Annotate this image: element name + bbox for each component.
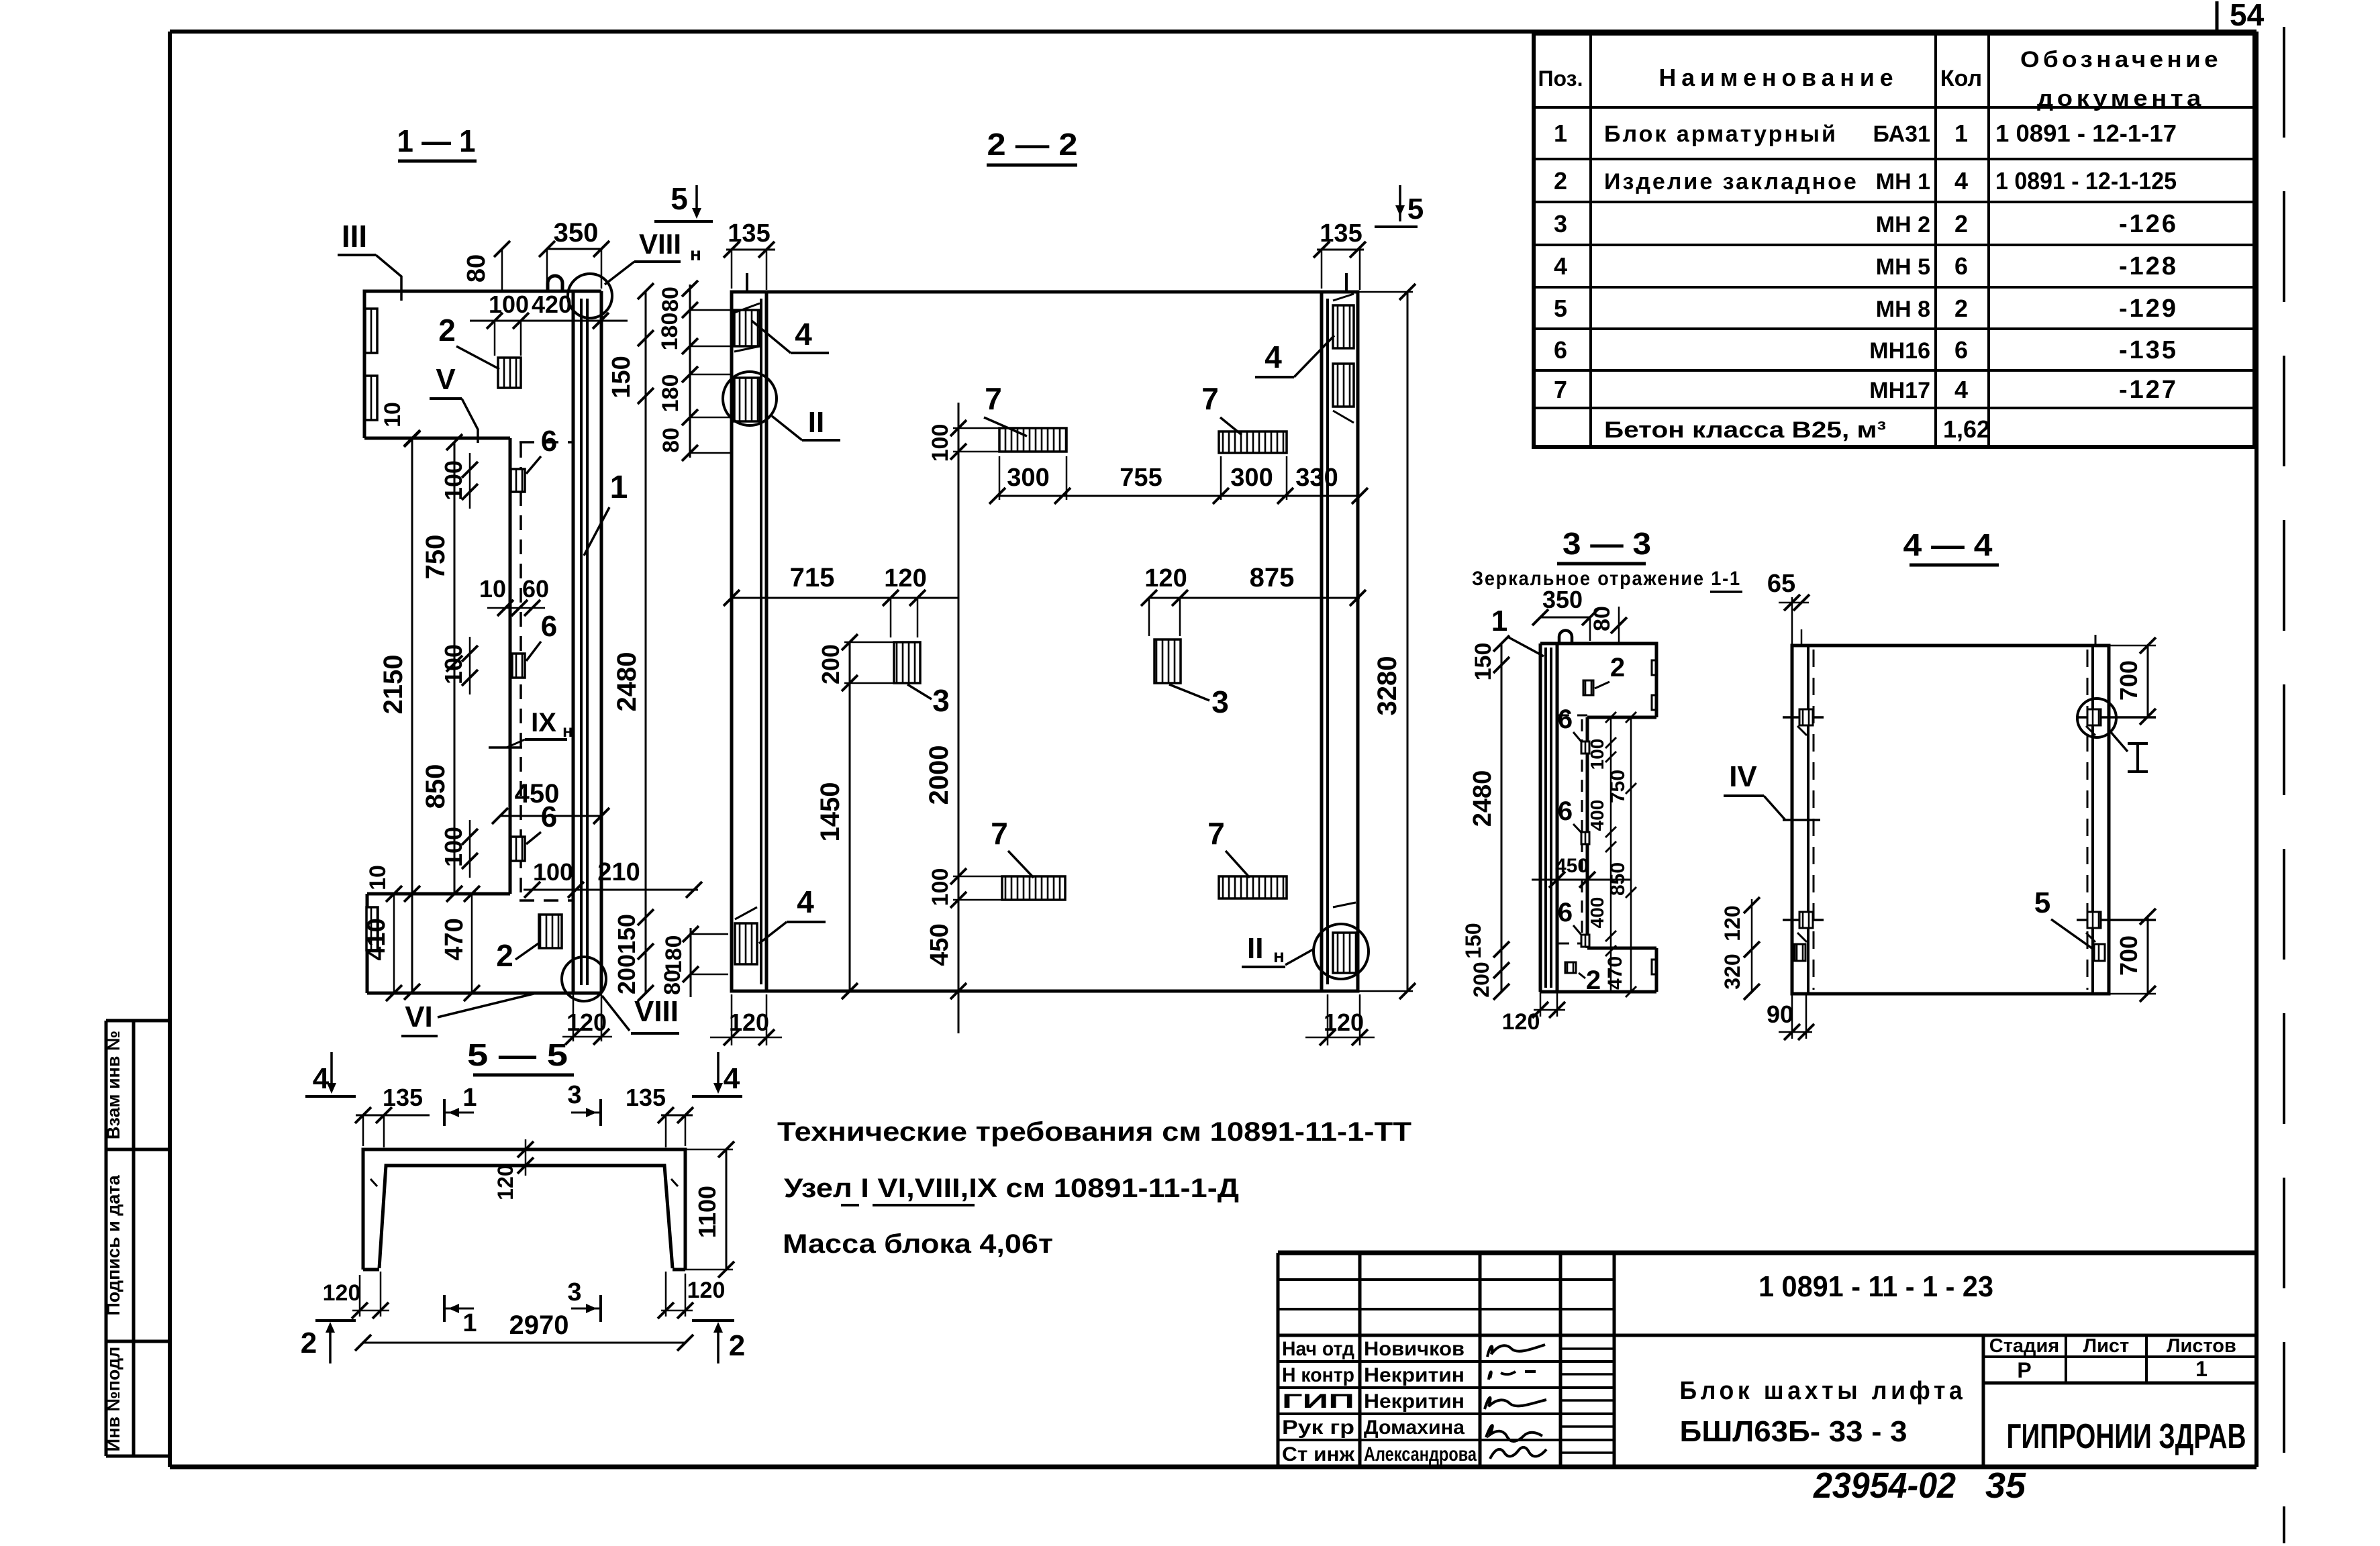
svg-text:80: 80 [658, 427, 684, 453]
svg-text:1: 1 [1554, 119, 1567, 147]
svg-text:300: 300 [1230, 464, 1273, 492]
svg-text:2150: 2150 [379, 655, 408, 715]
svg-text:54: 54 [2230, 0, 2265, 32]
svg-text:150: 150 [1461, 923, 1485, 958]
svg-text:Масса блока 4,06т: Масса блока 4,06т [783, 1229, 1053, 1259]
svg-text:750: 750 [1607, 770, 1629, 803]
svg-text:1450: 1450 [815, 782, 845, 842]
svg-text:VI: VI [405, 1000, 433, 1033]
svg-text:Изделие закладное: Изделие закладное [1604, 169, 1858, 195]
svg-text:6: 6 [541, 610, 557, 643]
svg-text:БА31: БА31 [1873, 121, 1930, 147]
svg-text:1: 1 [462, 1084, 477, 1112]
svg-text:Поз.: Поз. [1538, 66, 1583, 91]
svg-text:100: 100 [533, 858, 573, 886]
svg-text:-128: -128 [2119, 252, 2178, 280]
svg-text:23954-02: 23954-02 [1813, 1465, 1956, 1506]
svg-text:120: 120 [687, 1278, 726, 1303]
svg-text:470: 470 [1604, 956, 1626, 990]
svg-text:120: 120 [1144, 564, 1187, 592]
svg-text:Взам инв №: Взам инв № [103, 1031, 123, 1139]
svg-text:420: 420 [532, 291, 572, 318]
svg-text:7: 7 [1554, 376, 1567, 403]
svg-text:2: 2 [1610, 653, 1625, 682]
svg-text:5: 5 [2034, 886, 2050, 919]
svg-text:4: 4 [1554, 252, 1567, 280]
svg-text:1: 1 [610, 470, 628, 505]
svg-text:3: 3 [1554, 210, 1567, 238]
svg-text:400: 400 [1587, 800, 1607, 831]
svg-text:МН 1: МН 1 [1876, 169, 1930, 195]
svg-text:150: 150 [613, 914, 640, 954]
svg-text:Зеркальное отражение 1-1: Зеркальное отражение 1-1 [1472, 568, 1741, 590]
svg-text:120: 120 [1324, 1009, 1364, 1036]
svg-text:МН 8: МН 8 [1876, 297, 1930, 322]
svg-text:700: 700 [2115, 935, 2142, 976]
svg-text:4: 4 [797, 884, 814, 919]
svg-text:180: 180 [661, 935, 687, 974]
svg-text:БШЛ63Б- 33 - 3: БШЛ63Б- 33 - 3 [1680, 1415, 1907, 1448]
svg-text:Ст инж: Ст инж [1282, 1443, 1355, 1465]
svg-text:180: 180 [658, 374, 683, 413]
svg-text:1 — 1: 1 — 1 [397, 123, 476, 158]
svg-text:7: 7 [1201, 381, 1219, 416]
svg-text:1: 1 [1491, 605, 1507, 637]
svg-text:135: 135 [626, 1084, 666, 1111]
svg-text:Рук гр: Рук гр [1282, 1416, 1354, 1439]
svg-text:3280: 3280 [1373, 656, 1402, 716]
svg-text:МН 5: МН 5 [1876, 254, 1930, 280]
svg-text:1: 1 [1954, 119, 1968, 147]
svg-text:1 0891 - 12-1-17: 1 0891 - 12-1-17 [1995, 119, 2177, 147]
svg-text:90: 90 [1767, 1000, 1793, 1028]
svg-text:2: 2 [1554, 167, 1567, 195]
svg-text:2: 2 [1954, 210, 1968, 238]
svg-text:1 0891 - 11 - 1 - 23: 1 0891 - 11 - 1 - 23 [1758, 1270, 1993, 1303]
svg-text:5 — 5: 5 — 5 [467, 1037, 568, 1072]
svg-text:Узел I VI,VIII,IX см 10891-1: Узел I VI,VIII,IX см 10891-11-1-Д [784, 1174, 1239, 1203]
svg-text:6: 6 [1954, 252, 1968, 280]
svg-text:875: 875 [1250, 563, 1295, 592]
svg-text:Обозначение: Обозначение [2020, 47, 2222, 72]
svg-text:н: н [1273, 945, 1285, 966]
svg-text:2480: 2480 [1469, 770, 1497, 827]
svg-text:410: 410 [362, 918, 391, 960]
svg-text:6: 6 [1558, 796, 1573, 826]
svg-text:2: 2 [1586, 966, 1601, 995]
svg-text:7: 7 [1207, 816, 1225, 851]
svg-text:1 0891 - 12-1-125: 1 0891 - 12-1-125 [1995, 167, 2177, 195]
svg-text:120: 120 [884, 564, 926, 592]
svg-text:80: 80 [1589, 606, 1615, 631]
svg-text:-135: -135 [2119, 336, 2178, 364]
svg-text:2: 2 [496, 938, 513, 973]
svg-text:V: V [436, 363, 456, 396]
svg-text:100: 100 [928, 868, 953, 907]
svg-text:4: 4 [1954, 376, 1968, 403]
svg-text:180: 180 [657, 313, 683, 351]
svg-text:400: 400 [1587, 897, 1607, 929]
svg-text:6: 6 [1558, 705, 1573, 734]
svg-text:10: 10 [380, 402, 405, 427]
svg-text:МН17: МН17 [1869, 378, 1930, 403]
svg-text:II: II [1247, 932, 1263, 965]
svg-text:Подпись и дата: Подпись и дата [103, 1174, 123, 1315]
svg-text:150: 150 [1471, 643, 1496, 681]
svg-text:Блок шахты лифта: Блок шахты лифта [1680, 1377, 1967, 1405]
svg-text:60: 60 [522, 575, 549, 603]
svg-text:Кол: Кол [1940, 66, 1982, 91]
svg-text:1: 1 [462, 1309, 477, 1337]
svg-text:6: 6 [1954, 336, 1968, 364]
svg-text:210: 210 [597, 858, 640, 886]
svg-text:120: 120 [729, 1009, 769, 1036]
svg-text:2 — 2: 2 — 2 [987, 127, 1078, 162]
svg-text:5: 5 [1407, 193, 1424, 225]
svg-text:Р: Р [2017, 1358, 2031, 1382]
svg-text:3: 3 [567, 1278, 581, 1306]
svg-text:Новичков: Новичков [1364, 1338, 1465, 1360]
svg-text:100: 100 [1587, 739, 1607, 770]
svg-text:120: 120 [1720, 905, 1744, 941]
svg-text:120: 120 [1502, 1009, 1540, 1035]
svg-text:200: 200 [613, 954, 640, 994]
svg-text:700: 700 [2115, 660, 2142, 701]
svg-text:350: 350 [1542, 586, 1583, 613]
svg-text:10: 10 [479, 575, 506, 603]
svg-text:3: 3 [567, 1081, 581, 1109]
svg-text:VIII: VIII [639, 228, 681, 260]
svg-text:1,62: 1,62 [1943, 415, 1990, 443]
svg-text:IX: IX [531, 708, 556, 737]
svg-text:4: 4 [1954, 167, 1968, 195]
svg-text:2000: 2000 [924, 745, 954, 805]
svg-text:10: 10 [365, 865, 391, 890]
svg-text:-129: -129 [2119, 295, 2178, 323]
svg-text:450: 450 [926, 923, 954, 966]
svg-text:документа: документа [2037, 86, 2205, 111]
svg-text:2: 2 [438, 313, 456, 348]
svg-text:МН16: МН16 [1869, 338, 1930, 364]
svg-text:Блок арматурный: Блок арматурный [1604, 121, 1838, 147]
svg-text:100: 100 [928, 424, 953, 462]
svg-text:4: 4 [313, 1062, 330, 1095]
svg-text:Нач отд: Нач отд [1282, 1338, 1354, 1360]
svg-text:н: н [562, 721, 573, 741]
svg-text:2: 2 [301, 1327, 317, 1359]
svg-text:МН 2: МН 2 [1876, 212, 1930, 238]
svg-text:330: 330 [1295, 464, 1338, 492]
svg-text:4 — 4: 4 — 4 [1903, 527, 1993, 562]
svg-text:750: 750 [421, 535, 450, 580]
svg-text:IV: IV [1729, 760, 1757, 793]
svg-text:135: 135 [728, 219, 770, 248]
svg-text:200: 200 [817, 644, 844, 684]
svg-text:80: 80 [660, 970, 685, 995]
svg-text:5: 5 [1554, 295, 1567, 322]
svg-text:2970: 2970 [509, 1310, 569, 1340]
svg-text:3: 3 [932, 683, 950, 718]
svg-text:Наименование: Наименование [1659, 64, 1899, 91]
svg-text:120: 120 [493, 1164, 517, 1200]
svg-text:120: 120 [323, 1280, 361, 1306]
svg-text:II: II [808, 406, 824, 439]
svg-text:Стадия: Стадия [1989, 1335, 2059, 1357]
svg-text:4: 4 [795, 317, 812, 352]
svg-text:5: 5 [671, 181, 688, 216]
svg-text:3: 3 [1211, 684, 1229, 719]
svg-text:35: 35 [1985, 1465, 2026, 1506]
svg-text:80: 80 [462, 254, 491, 282]
svg-text:470: 470 [440, 918, 468, 960]
svg-text:Некритин: Некритин [1364, 1390, 1465, 1412]
svg-text:450: 450 [515, 779, 560, 809]
svg-text:Некритин: Некритин [1364, 1364, 1465, 1386]
svg-text:300: 300 [1007, 464, 1049, 492]
svg-text:4: 4 [724, 1062, 740, 1095]
svg-text:200: 200 [1469, 962, 1493, 997]
svg-text:135: 135 [1320, 219, 1362, 248]
svg-text:135: 135 [383, 1084, 423, 1111]
svg-text:1: 1 [2195, 1357, 2208, 1381]
svg-text:150: 150 [607, 356, 636, 398]
svg-text:7: 7 [991, 816, 1008, 851]
svg-text:Н контр: Н контр [1282, 1364, 1354, 1386]
svg-text:III: III [342, 219, 367, 254]
svg-text:6: 6 [1558, 898, 1573, 927]
svg-text:-127: -127 [2119, 376, 2178, 404]
svg-text:320: 320 [1720, 954, 1744, 989]
svg-text:6: 6 [541, 425, 557, 458]
svg-text:Инв №подл: Инв №подл [103, 1347, 123, 1452]
svg-text:80: 80 [658, 287, 683, 312]
svg-text:450: 450 [1555, 855, 1589, 877]
svg-text:Листов: Листов [2167, 1335, 2236, 1357]
svg-text:2480: 2480 [612, 652, 642, 712]
svg-text:ГИП: ГИП [1282, 1390, 1354, 1412]
svg-text:6: 6 [1554, 336, 1567, 364]
svg-text:н: н [690, 244, 701, 264]
svg-text:755: 755 [1120, 464, 1162, 492]
svg-text:-126: -126 [2119, 210, 2178, 238]
svg-text:Александрова: Александрова [1364, 1443, 1477, 1465]
svg-text:Лист: Лист [2083, 1335, 2130, 1357]
svg-text:VIII: VIII [634, 995, 679, 1028]
svg-text:2: 2 [729, 1329, 745, 1362]
svg-text:850: 850 [421, 764, 450, 809]
svg-text:2: 2 [1954, 295, 1968, 322]
svg-text:7: 7 [985, 381, 1002, 416]
svg-text:1100: 1100 [693, 1186, 721, 1238]
svg-text:Домахина: Домахина [1364, 1416, 1465, 1439]
svg-text:ГИПРОНИИ ЗДРАВ: ГИПРОНИИ ЗДРАВ [2007, 1417, 2246, 1456]
svg-text:715: 715 [790, 563, 835, 592]
svg-text:Бетон класса В25, м³: Бетон класса В25, м³ [1604, 417, 1886, 443]
svg-text:Технические требования см 10: Технические требования см 10891-11-1-ТТ [777, 1117, 1411, 1147]
svg-text:4: 4 [1265, 340, 1282, 374]
svg-text:100: 100 [489, 291, 529, 318]
svg-text:350: 350 [554, 218, 599, 248]
svg-text:65: 65 [1767, 570, 1795, 598]
svg-text:3 — 3: 3 — 3 [1563, 526, 1651, 561]
